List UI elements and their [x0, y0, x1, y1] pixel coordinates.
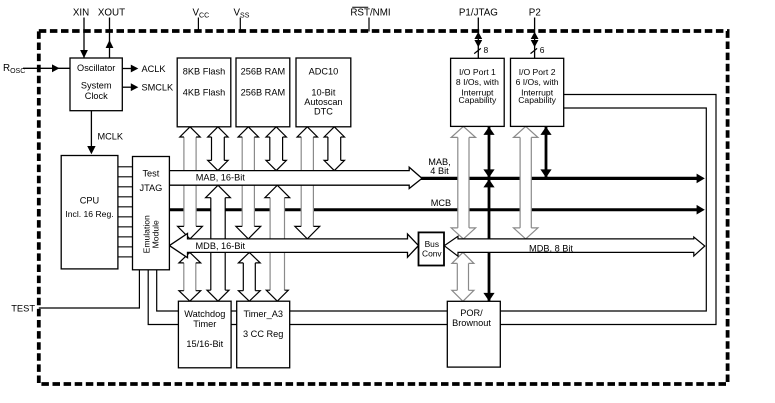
svg-text:6 I/Os, with: 6 I/Os, with — [516, 77, 559, 87]
svg-text:Incl. 16 Reg.: Incl. 16 Reg. — [65, 209, 113, 219]
svg-text:3 CC Reg: 3 CC Reg — [243, 329, 283, 339]
svg-text:Bus: Bus — [425, 239, 439, 249]
svg-text:Oscillator: Oscillator — [77, 63, 115, 73]
svg-text:P1/JTAG: P1/JTAG — [459, 7, 498, 18]
svg-text:Clock: Clock — [85, 91, 108, 101]
svg-text:RST/NMI: RST/NMI — [350, 8, 390, 19]
svg-text:Capability: Capability — [459, 95, 497, 105]
svg-text:ACLK: ACLK — [142, 64, 167, 74]
svg-text:8KB Flash: 8KB Flash — [183, 67, 225, 77]
svg-text:SMCLK: SMCLK — [142, 83, 175, 93]
svg-text:4 Bit: 4 Bit — [430, 166, 449, 176]
svg-text:8 I/Os, with: 8 I/Os, with — [456, 77, 499, 87]
svg-text:Brownout: Brownout — [452, 318, 491, 328]
svg-text:JTAG: JTAG — [139, 183, 162, 193]
svg-text:256B RAM: 256B RAM — [241, 67, 285, 77]
svg-text:MDB, 8 Bit: MDB, 8 Bit — [529, 243, 573, 253]
svg-text:MCLK: MCLK — [98, 132, 124, 142]
svg-text:15/16-Bit: 15/16-Bit — [186, 339, 223, 349]
svg-text:256B RAM: 256B RAM — [241, 88, 285, 98]
svg-text:Autoscan: Autoscan — [304, 97, 342, 107]
svg-text:MAB, 16-Bit: MAB, 16-Bit — [196, 172, 245, 182]
svg-text:System: System — [81, 81, 112, 91]
svg-text:4KB Flash: 4KB Flash — [183, 88, 225, 98]
svg-text:XIN: XIN — [73, 8, 89, 19]
svg-text:TEST: TEST — [11, 304, 35, 314]
svg-text:6: 6 — [540, 45, 545, 55]
svg-text:DTC: DTC — [314, 107, 333, 117]
svg-text:8: 8 — [484, 45, 489, 55]
svg-text:Timer: Timer — [193, 319, 216, 329]
svg-text:Timer_A3: Timer_A3 — [243, 309, 282, 319]
svg-text:I/O Port 1: I/O Port 1 — [459, 67, 496, 77]
svg-text:I/O Port 2: I/O Port 2 — [519, 67, 556, 77]
svg-text:Module: Module — [150, 220, 160, 248]
svg-text:XOUT: XOUT — [98, 8, 125, 19]
svg-text:CPU: CPU — [80, 196, 99, 206]
svg-text:Test: Test — [142, 168, 159, 178]
svg-text:Conv: Conv — [422, 249, 442, 259]
svg-text:Capability: Capability — [518, 95, 556, 105]
svg-text:MCB: MCB — [431, 198, 451, 208]
svg-text:MDB, 16-Bit: MDB, 16-Bit — [196, 241, 246, 251]
svg-text:ADC10: ADC10 — [309, 67, 339, 77]
svg-text:POR/: POR/ — [460, 308, 483, 318]
svg-text:10-Bit: 10-Bit — [311, 88, 335, 98]
svg-text:Watchdog: Watchdog — [184, 309, 225, 319]
svg-text:P2: P2 — [529, 7, 541, 18]
